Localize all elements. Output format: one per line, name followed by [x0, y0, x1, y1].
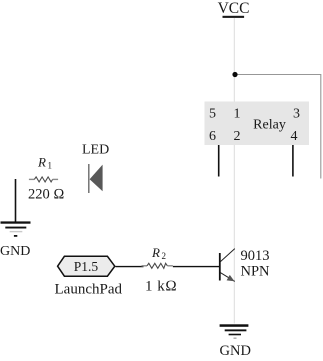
svg-text:2: 2	[234, 129, 241, 144]
svg-text:R: R	[151, 245, 160, 260]
svg-text:GND: GND	[220, 343, 251, 359]
svg-text:4: 4	[291, 129, 298, 144]
svg-text:1: 1	[48, 161, 53, 171]
svg-text:P1.5: P1.5	[74, 259, 99, 274]
svg-text:9013: 9013	[241, 248, 270, 264]
svg-text:220 Ω: 220 Ω	[28, 187, 65, 203]
svg-text:1 kΩ: 1 kΩ	[145, 279, 177, 295]
svg-text:R: R	[37, 155, 46, 170]
svg-text:5: 5	[209, 107, 216, 122]
svg-text:NPN: NPN	[241, 264, 271, 280]
svg-text:6: 6	[209, 129, 216, 144]
svg-text:1: 1	[234, 107, 241, 122]
svg-text:LED: LED	[82, 143, 109, 158]
svg-text:Relay: Relay	[253, 118, 286, 133]
svg-text:2: 2	[162, 251, 167, 261]
svg-text:GND: GND	[0, 244, 30, 259]
svg-text:3: 3	[293, 107, 300, 122]
svg-text:LaunchPad: LaunchPad	[55, 282, 123, 298]
svg-text:VCC: VCC	[218, 0, 250, 17]
